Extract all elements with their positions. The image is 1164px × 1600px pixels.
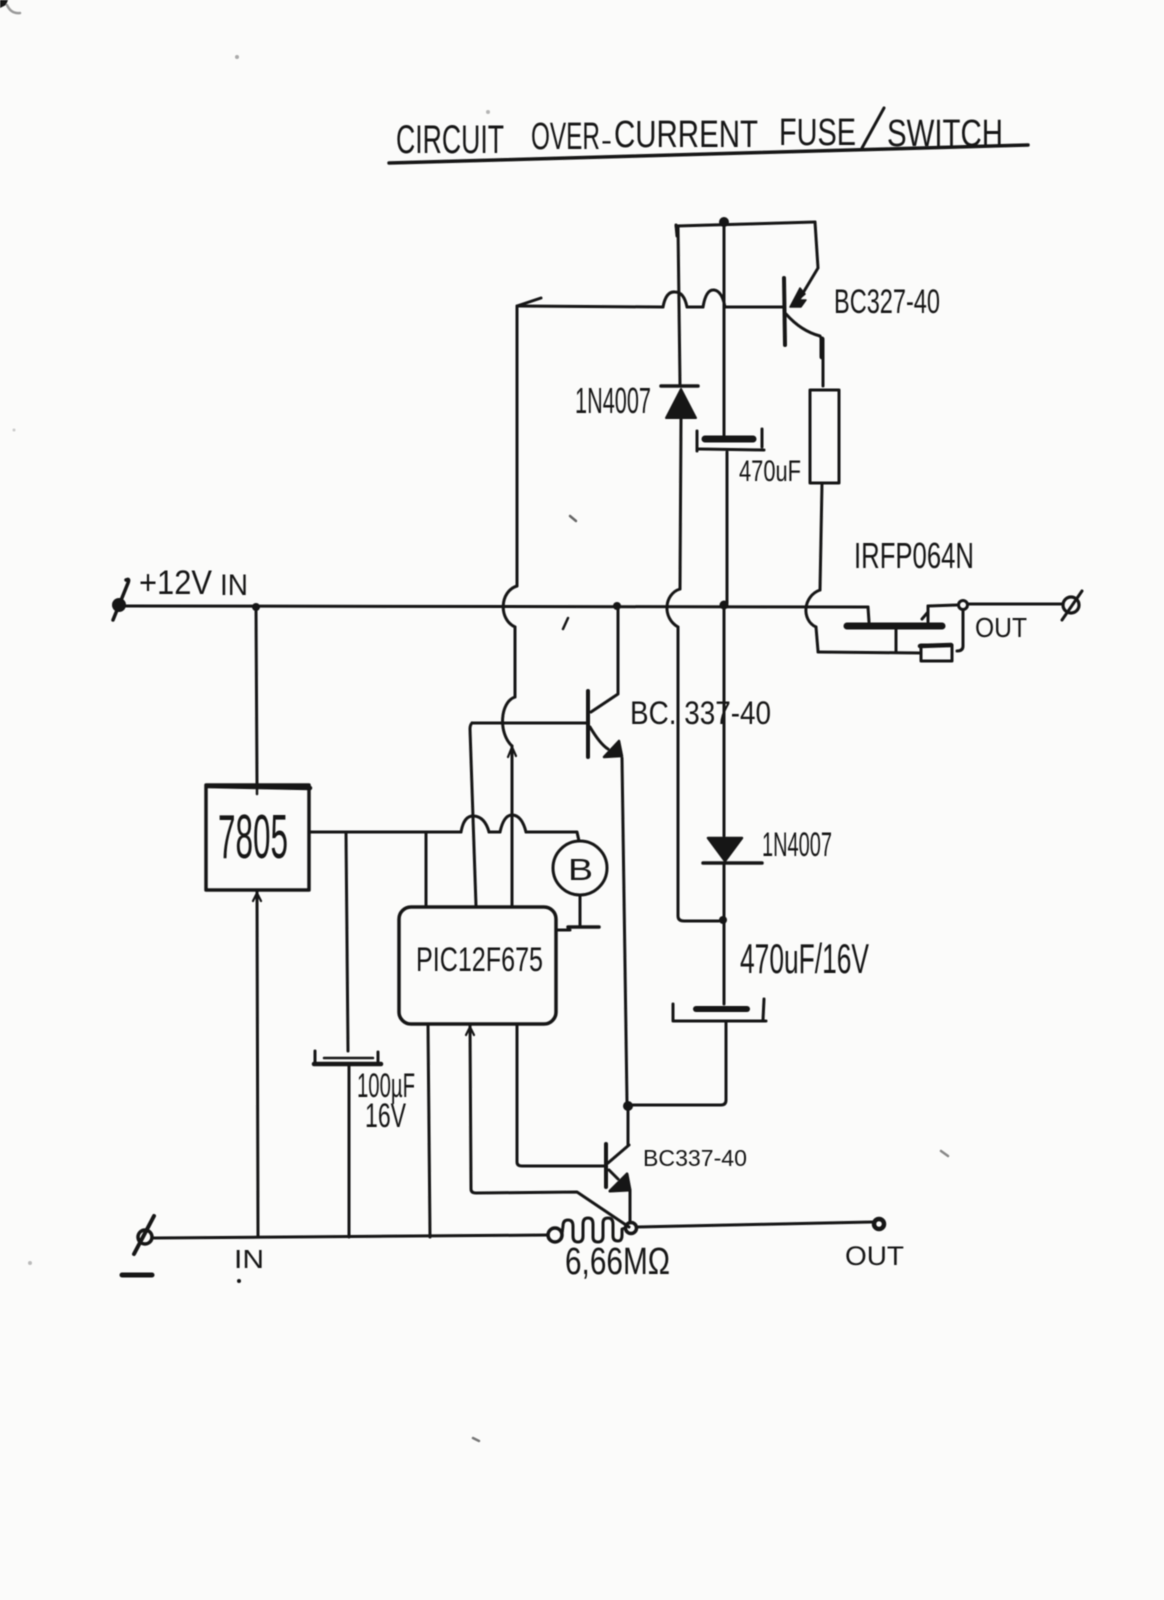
svg-text:6,66MΩ: 6,66MΩ — [565, 1241, 670, 1283]
svg-text:PIC12F675: PIC12F675 — [416, 941, 543, 979]
svg-text:BC337-40: BC337-40 — [643, 1145, 747, 1171]
svg-text:BC. 337-40: BC. 337-40 — [630, 695, 771, 731]
svg-text:7805: 7805 — [218, 803, 288, 872]
wire PIC pin bottom 1 — [428, 1024, 430, 1237]
transistor Q3 BC337-40 — [604, 1144, 608, 1187]
terminal +12V IN — [112, 598, 126, 612]
capacitor C2 100uF — [324, 1057, 373, 1060]
svg-text:FUSE: FUSE — [779, 112, 856, 154]
svg-text:-: - — [601, 124, 612, 157]
mosfet Q4 IRFP064N body — [868, 607, 869, 622]
wire 7805 ground pin to bottom rail — [257, 890, 258, 1237]
wire +12V rail — [123, 606, 868, 607]
wire 7805 output with hops — [309, 831, 461, 834]
capacitor C1 470uF — [705, 436, 753, 443]
wire Q2 emitter down to node — [622, 758, 627, 1103]
diode D2 1N4007 (pointing down) — [708, 838, 742, 861]
wire 100uF branch — [346, 832, 348, 1051]
resistor R1 — [810, 390, 839, 483]
wire below R1 — [820, 483, 822, 590]
wire top bus — [676, 222, 815, 226]
wire node down to sense box — [957, 610, 963, 651]
svg-text:470uF: 470uF — [739, 455, 801, 488]
wire hop over rail (gate line) — [806, 590, 820, 627]
wire Q1 collector to R1 — [786, 314, 823, 386]
node rail dot D2 — [720, 601, 729, 610]
svg-text:IN: IN — [234, 1244, 264, 1274]
title slash — [862, 108, 884, 148]
transistor Q2 BC337-40 — [586, 691, 590, 757]
node junction dot mid — [719, 916, 727, 924]
node rail dot 7805 — [252, 603, 260, 611]
svg-text:IRFP064N: IRFP064N — [854, 535, 974, 576]
ic PIC12F675 — [399, 907, 556, 1024]
svg-text:OUT: OUT — [975, 612, 1027, 643]
wire B circle down to T bar — [579, 896, 582, 925]
wire drain to node — [928, 605, 957, 606]
terminal OUT bottom — [874, 1219, 884, 1229]
wire PIC pin bottom 2 (to shunt junction) — [470, 1024, 629, 1227]
wire 7805 input from rail — [256, 607, 257, 784]
wire below rail down — [678, 627, 719, 921]
title underline — [389, 145, 1028, 163]
transistor Q1 BC327-40 — [784, 278, 785, 345]
svg-text:OUT: OUT — [845, 1241, 904, 1271]
svg-text:16V: 16V — [365, 1097, 406, 1135]
wire long sense line (arrow at top, down to PIC) — [516, 307, 519, 586]
wire node to OUT terminal — [968, 603, 1062, 606]
node drain ring — [959, 601, 968, 610]
wire PIC vdd branch — [425, 832, 428, 906]
mosfet Q4 drain stub with arrow — [927, 606, 930, 622]
resistor sense box of mosfet — [921, 645, 952, 661]
wire bottom rail left — [154, 1235, 548, 1238]
wire Q2 collector from rail — [591, 606, 618, 712]
wire base corner down to PIC — [470, 723, 476, 906]
terminal shunt left — [548, 1228, 562, 1242]
corner scan mark — [0, 0, 8, 8]
terminal OUT top — [1063, 597, 1079, 613]
wire bottom rail right — [637, 1222, 872, 1227]
wire below D1 to rail hop — [680, 418, 681, 589]
wire Q1 emitter corner — [800, 222, 818, 298]
wire hop over rail (diode line) — [667, 589, 680, 627]
resistor shunt 6.66mohm squiggle — [562, 1218, 625, 1242]
svg-text:B: B — [568, 852, 593, 887]
svg-text:470uF/16V: 470uF/16V — [740, 935, 869, 982]
terminal IN bottom — [138, 1230, 152, 1244]
pen mark below rail — [563, 618, 568, 629]
svg-text:OVER: OVER — [531, 116, 600, 158]
wire PIC pin bottom 3 (to Q3 base) — [517, 1024, 604, 1166]
wire to C3 — [723, 921, 726, 1004]
diode D1 1N4007 (pointing up) — [661, 384, 698, 388]
node junction ring shunt right — [626, 1223, 637, 1234]
title CIRCUIT OVER-CURRENT FUSE/SWITCH — [396, 112, 1003, 162]
svg-text:BC327-40: BC327-40 — [834, 283, 940, 321]
wire D2 branch from rail — [723, 609, 726, 836]
wire Q2 base — [472, 722, 586, 725]
label minus sign — [122, 1273, 152, 1278]
scan specks — [235, 55, 239, 59]
wire C1 bottom to rail node — [726, 452, 729, 603]
svg-text:+12V: +12V — [139, 564, 212, 602]
pen dot under IN — [237, 1279, 241, 1283]
svg-text:1N4007: 1N4007 — [762, 826, 832, 864]
svg-text:IN: IN — [220, 569, 248, 602]
node junction dot top — [719, 217, 729, 227]
regulator U2 7805 — [206, 785, 309, 890]
wire PIC right edge to B node — [556, 929, 570, 932]
svg-text:CIRCUIT: CIRCUIT — [396, 118, 504, 162]
svg-text:1N4007: 1N4007 — [575, 380, 651, 421]
node B circle — [553, 841, 607, 895]
wire top node down to C1 — [723, 226, 726, 435]
wire base of Q1 with hops — [517, 298, 541, 306]
node dot above Q3 — [623, 1101, 633, 1111]
wire diode branch vertical — [678, 226, 680, 385]
svg-text:CURRENT: CURRENT — [614, 114, 758, 156]
node rail dot Q2 collector — [613, 602, 621, 610]
capacitor C3 470uF/16V — [696, 1006, 747, 1012]
